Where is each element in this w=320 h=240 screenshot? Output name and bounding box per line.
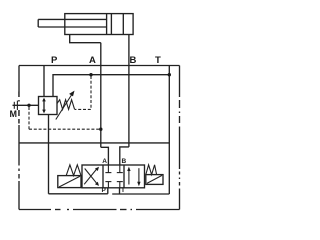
wire T port line [168,66,170,195]
wire A jog to valve port [101,147,109,165]
svg-text:A: A [89,55,96,66]
valve P stub [107,188,109,194]
wire A feed line [100,43,102,148]
valve left spring [66,165,81,176]
relief valve outlet line down [48,115,50,194]
tank rail under valve T side [112,193,169,195]
svg-text:P: P [102,187,107,194]
svg-text:B: B [122,158,127,165]
node junction on A line [99,128,102,131]
valve right spring [146,165,157,175]
node pilot junction [89,73,92,76]
svg-text:B: B [130,55,137,66]
valve crossed arrows position [84,167,99,186]
measuring port M line [13,104,39,106]
valve parallel arrows position [127,167,140,187]
interface chain line [19,142,169,144]
cylinder head cap line [122,14,124,35]
wire relief outlet to T rail [53,75,169,97]
solenoid b [146,175,163,185]
relief valve spring [57,100,75,110]
cylinder piston [107,14,112,35]
manifold block boundary [19,66,180,210]
cylinder body [65,14,133,35]
wire B jog to valve port [120,147,129,165]
valve V1 envelope [82,165,145,188]
svg-text:M: M [10,109,18,119]
node junction on T line [168,73,171,76]
wire P port down to relief valve [43,66,45,97]
svg-text:T: T [121,187,125,194]
wire cylinder rod-side port to A [70,35,101,43]
wire cylinder cap-side port to B [128,35,130,147]
solenoid a [58,176,81,188]
svg-text:P: P [51,55,58,66]
tank rail under valve P side [49,193,108,195]
relief valve R1 body [39,97,58,115]
pilot line dashed from A rail to relief spring [75,76,91,109]
cylinder piston rod [38,19,106,27]
relief valve internal arrow [42,98,46,114]
relief valve adjustment arrow [56,91,75,120]
node M junction [27,104,30,107]
svg-text:T: T [155,55,161,66]
valve T stub [119,188,121,194]
measuring coupling symbol [14,92,19,124]
drain line dashed from M junction to A line [29,107,100,129]
valve closed centre port symbols [105,165,122,188]
svg-text:A: A [102,158,107,165]
